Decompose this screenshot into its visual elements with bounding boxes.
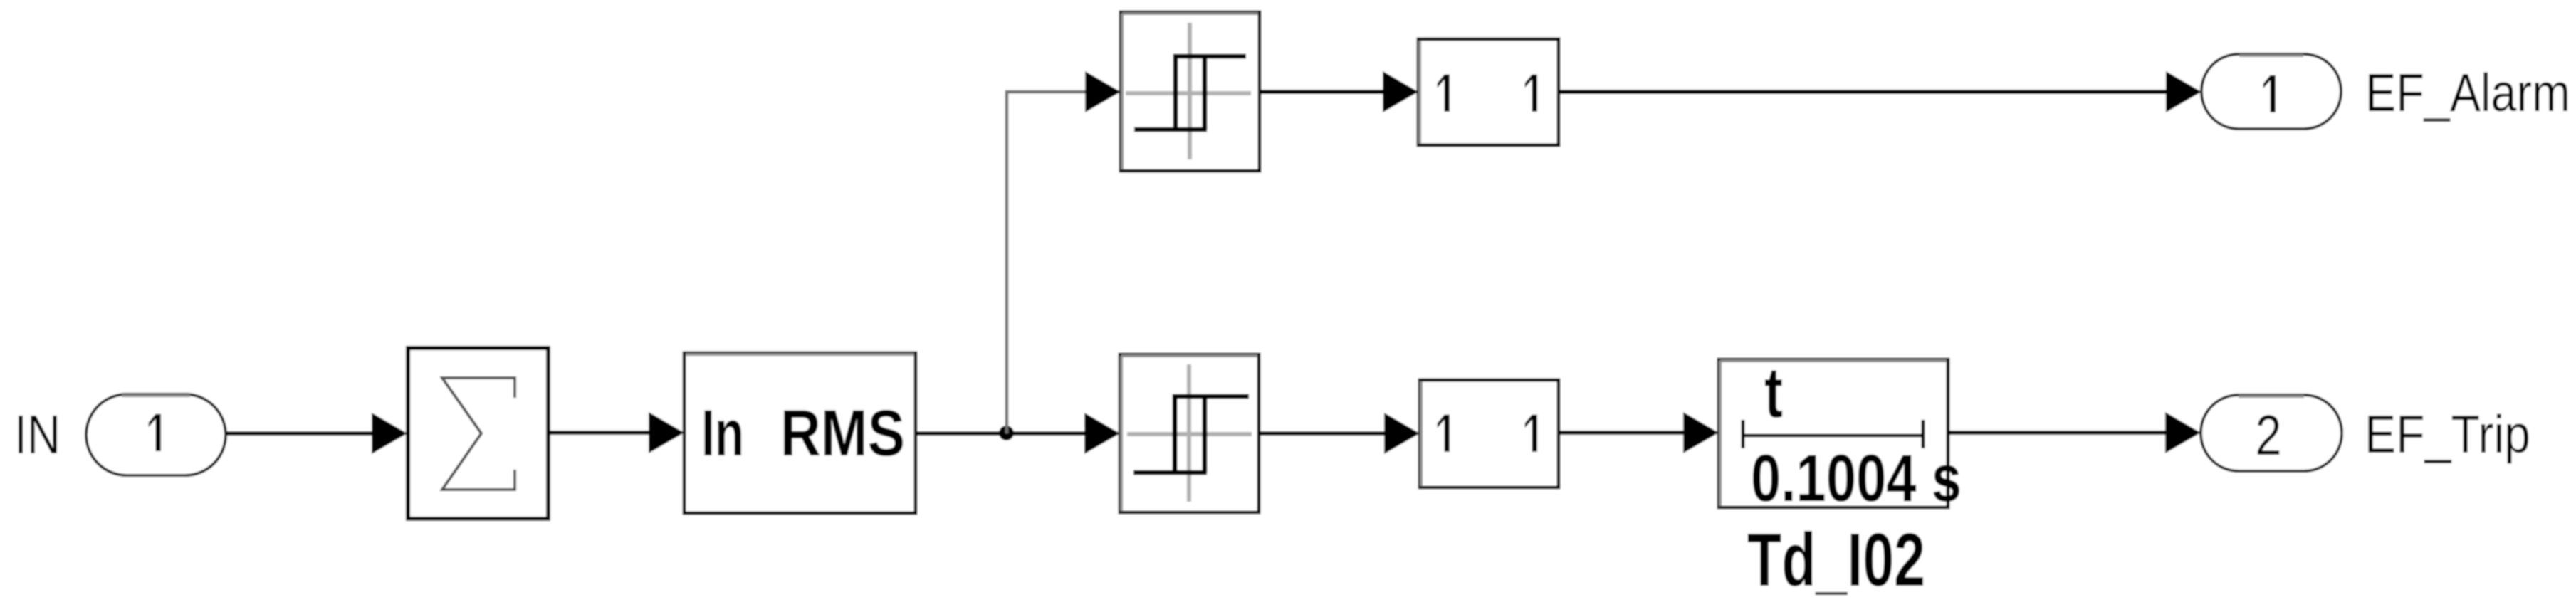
wire RMS to bottom relay <box>916 413 1120 454</box>
wire timer to output port 2 <box>1948 412 2201 453</box>
output port 2 (EF_Trip) <box>2201 395 2342 471</box>
svg-text:In: In <box>701 397 744 470</box>
svg-text:Td_I02: Td_I02 <box>1747 518 1925 602</box>
relay block bottom <box>1120 354 1259 512</box>
node junction dot <box>999 426 1014 440</box>
wire input port to sum <box>226 413 407 454</box>
svg-text:EF_Trip: EF_Trip <box>2365 404 2530 464</box>
output port 1 (EF_Alarm) <box>2201 54 2341 129</box>
relay block top <box>1121 12 1260 171</box>
data type conversion block bottom (1 1) <box>1420 380 1559 487</box>
wire branch to top relay <box>1007 71 1121 433</box>
input port 1 (IN) <box>86 394 226 475</box>
timer block Td_I02 <box>1719 353 1962 515</box>
svg-text:t: t <box>1764 353 1783 433</box>
svg-text:RMS: RMS <box>780 397 905 470</box>
sum block U1 <box>408 348 548 519</box>
RMS block <box>684 353 916 513</box>
wire bottom 1 1 block to timer <box>1559 412 1719 453</box>
svg-text:EF_Alarm: EF_Alarm <box>2365 63 2570 122</box>
svg-text:0.1004 s: 0.1004 s <box>1751 440 1962 515</box>
data type conversion block top (1 1) <box>1418 39 1559 145</box>
wire top 1 1 block to output port 1 <box>1559 71 2201 112</box>
svg-text:IN: IN <box>14 404 61 465</box>
wire bottom relay to bottom 1 1 block <box>1259 413 1420 454</box>
svg-text:2: 2 <box>2256 403 2282 467</box>
wire top relay to top 1 1 block <box>1260 71 1418 112</box>
wire sum to RMS <box>548 412 684 453</box>
